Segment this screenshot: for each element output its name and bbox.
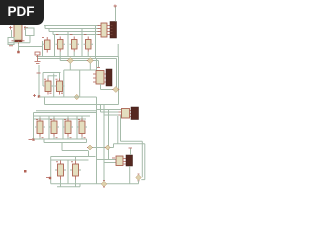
supply flag D4 <box>87 145 93 150</box>
label RS4 <box>29 139 33 141</box>
wire row5 left drop <box>50 157 52 184</box>
wire bus drop 4 <box>95 26 97 59</box>
T1 base bar <box>14 40 22 42</box>
IC U6 <box>63 116 73 137</box>
wire bus row4 <box>34 111 97 139</box>
resistor G3 <box>84 35 94 52</box>
IC U2 <box>43 79 53 95</box>
wire riser B <box>103 104 105 181</box>
wire CN4 down <box>129 166 131 184</box>
wire D5 up <box>110 144 113 148</box>
wire below row4 line2 <box>44 139 87 143</box>
supply flag D7 <box>136 174 142 181</box>
wire bus CN3 <box>97 105 122 116</box>
IC CN1 <box>98 23 111 37</box>
wire drops below row1 <box>60 52 88 61</box>
wire rail corner inner <box>116 59 118 88</box>
rail lower <box>38 58 117 60</box>
supply flag D3 <box>112 87 119 93</box>
label B2 bottom <box>9 45 13 47</box>
connector J2 body <box>106 69 112 86</box>
wire T1 to U1 <box>19 46 43 48</box>
wire below row4 line1 <box>34 137 87 140</box>
resistor R1 <box>35 52 40 55</box>
label tick D2 <box>97 67 101 69</box>
frame B1 <box>26 28 35 36</box>
wire bus drop 2 <box>67 32 69 57</box>
wire row4 inter drops <box>49 116 77 139</box>
wire J4 top <box>130 149 132 156</box>
wire drop to Dmid <box>79 70 81 97</box>
resistor G2 <box>70 35 80 52</box>
connector J4 body <box>126 155 133 166</box>
resistor G1 <box>56 35 66 52</box>
wire J1 top <box>115 7 117 22</box>
connector J3 body <box>131 107 139 120</box>
wire U1 left drop <box>42 41 44 57</box>
wire CN2 to D3 <box>101 84 113 90</box>
wire bottom rail <box>51 183 139 185</box>
wire bus row5 <box>51 151 96 161</box>
supply flag D6 <box>101 181 107 188</box>
node junction RS2 <box>38 95 40 97</box>
IC CN2 <box>93 71 106 85</box>
ground GND1 <box>35 55 41 64</box>
wire row5 mid drop <box>67 160 69 184</box>
IC U1 <box>42 37 50 53</box>
wire bus drop 3 <box>81 29 83 57</box>
IC U4 <box>35 116 45 137</box>
wire riser C <box>108 110 110 160</box>
wire riser A <box>96 97 98 184</box>
label tick riser <box>37 72 41 74</box>
wire mid drop row2 <box>53 74 55 98</box>
node junction RS4 <box>32 138 34 140</box>
label row4 bottoms <box>42 137 86 139</box>
label J1 top <box>114 5 118 8</box>
wire CN2 drop <box>96 59 98 71</box>
node junction RS5 <box>49 177 51 179</box>
wire G1 to D1 <box>60 60 67 62</box>
IC U8 <box>55 161 66 180</box>
connector J1 body <box>110 22 117 39</box>
wire below row5 <box>57 180 80 187</box>
wire D1 down <box>69 64 71 71</box>
T1 pin stub <box>18 41 20 44</box>
IC U3 <box>55 79 65 95</box>
label RS5 <box>46 177 49 179</box>
wire bus staircase <box>44 26 100 35</box>
wire J1 bottom stub <box>117 44 119 57</box>
PDF badge <box>0 0 44 25</box>
supply flag D2 <box>87 58 94 64</box>
wire T1 lower link <box>8 36 30 43</box>
wire bus CN4 <box>97 160 117 163</box>
label T1 right <box>24 26 28 30</box>
wire right drop row2 <box>63 70 65 97</box>
label RS2 <box>33 94 36 97</box>
wire bus row2 <box>43 64 96 87</box>
wire CN3 down inner <box>121 115 143 177</box>
IC U9 <box>70 161 81 180</box>
wire D2 right <box>93 61 98 68</box>
IC U5 <box>49 116 59 137</box>
label dot left <box>24 170 27 173</box>
wire D1 to D2 <box>73 60 87 62</box>
T1 bottom pins <box>12 40 25 42</box>
label CN4 pins <box>112 157 115 159</box>
wire D7 bottom link <box>138 180 140 183</box>
label U2 U3 bottoms <box>50 92 64 94</box>
supply flag Dmid <box>74 94 81 99</box>
wire bus drop 1 <box>54 35 56 57</box>
wire T1 down <box>18 44 20 51</box>
label J4 top <box>129 147 133 149</box>
wire step to D4 <box>62 143 88 151</box>
rail upper <box>36 56 119 58</box>
label T1 left <box>9 26 13 30</box>
IC CN3 <box>119 109 132 119</box>
IC U7 <box>77 116 87 137</box>
wire lower rail row2 <box>39 96 97 98</box>
supply flag D5 <box>105 145 111 150</box>
wire rail corner outer <box>45 57 119 105</box>
wire D4 to D5 <box>93 147 106 149</box>
wire CN3 down outer <box>114 116 145 180</box>
IC CN4 <box>116 156 126 166</box>
wire B2 top <box>11 30 13 38</box>
frame B2 <box>8 38 14 45</box>
wire left riser <box>38 65 40 97</box>
supply flag D1 <box>67 58 74 64</box>
node junction T1 <box>17 51 20 54</box>
transformer T1 <box>14 20 22 41</box>
